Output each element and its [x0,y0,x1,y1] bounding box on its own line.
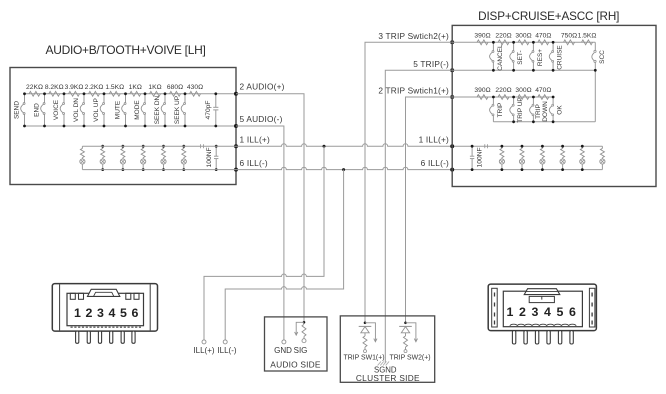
svg-text:4: 4 [109,306,116,320]
svg-text:1: 1 [74,306,81,320]
connector J2 (6-pin, cluster side) body [488,284,596,331]
switch OK [549,96,563,124]
illumination lamp RH L5 with resistor [580,145,585,171]
svg-text:SEND: SEND [14,101,21,119]
switch SEEK DN [154,92,166,127]
svg-text:6: 6 [569,305,576,319]
svg-text:3 TRIP Swtich2(+): 3 TRIP Swtich2(+) [378,31,449,41]
svg-text:AUDIO SIDE: AUDIO SIDE [270,360,321,370]
svg-text:1KΩ: 1KΩ [129,84,142,91]
svg-text:SCC: SCC [599,50,606,64]
svg-text:5 TRIP(-): 5 TRIP(-) [413,59,449,69]
switch SET- [510,41,524,72]
switch CRUISE [549,41,563,72]
svg-text:390Ω: 390Ω [474,32,490,39]
illumination lamp RH L2 with resistor [519,145,524,171]
svg-text:470Ω: 470Ω [535,87,551,94]
wire: LH ladder top rail (AUDIO+) [25,93,237,95]
resistor R 300ohm row2 [515,87,531,99]
svg-text:1: 1 [507,305,514,319]
svg-text:5 AUDIO(-): 5 AUDIO(-) [240,114,283,124]
svg-text:2: 2 [86,306,93,320]
svg-text:3: 3 [97,306,104,320]
svg-text:4: 4 [544,305,551,319]
switch END [34,92,46,127]
resistor R 1.5K [578,32,597,44]
svg-text:CRUISE: CRUISE [557,45,564,70]
switch VOL UP [93,92,105,127]
svg-text:OK: OK [557,105,564,115]
resistor R 22K (22Kohm) [26,84,43,96]
wire: RH row1 bottom rail (TRIP-) [452,69,595,71]
connector J1 pin numbers 1-6 [74,306,139,320]
svg-text:TRIP UP: TRIP UP [517,97,524,123]
svg-text:3: 3 [532,305,539,319]
svg-text:680Ω: 680Ω [167,84,183,91]
capacitor C 100NF (LH) [201,144,219,171]
wire: RH row2 bottom rail [493,121,595,123]
illumination lamp LH L1 with resistor [80,146,85,169]
svg-text:TRIP SW1(+): TRIP SW1(+) [343,354,384,361]
svg-text:390Ω: 390Ω [474,87,490,94]
diode D1 + resistor (TRIP SW1 input) [359,322,377,353]
svg-text:2.2KΩ: 2.2KΩ [85,84,104,91]
svg-text:GND: GND [274,346,292,355]
resistor R 1.5K (1.5Kohm) [105,84,124,96]
block outline: audio switch module [LH] [10,68,236,185]
illumination lamp LH L3 with resistor [120,145,125,171]
svg-text:1KΩ: 1KΩ [148,84,161,91]
svg-text:1 ILL(+): 1 ILL(+) [419,135,449,145]
connector J1 pins [76,331,135,343]
svg-text:6: 6 [132,306,139,320]
svg-text:1.5KΩ: 1.5KΩ [578,32,597,39]
node 5 AUDIO(-) at LH box edge [234,114,283,128]
terminal ILL(+) [193,340,214,355]
title: DISP+CRUISE+ASCC [RH] [478,10,619,23]
illumination lamp LH L5 with resistor [161,145,166,171]
resistor R 1K b (1Kohm) [148,84,161,96]
wire 5 AUDIO(-) to GND [236,126,284,340]
svg-text:22KΩ: 22KΩ [26,84,43,91]
wire 2 TRIP Swtich1(+) to cluster [406,97,453,323]
illumination lamp RH L6 with resistor [600,146,605,169]
connector J2 pin numbers 1-6 [507,305,577,319]
svg-text:100NF: 100NF [206,147,213,167]
wire ILL(-) tap to terminal [225,170,343,340]
svg-text:2: 2 [519,305,526,319]
node 2 TRIP Swtich1(+) at RH box edge [378,85,454,99]
svg-text:1.5KΩ: 1.5KΩ [105,84,124,91]
terminal SIG [294,339,308,355]
svg-text:DOWN: DOWN [542,101,549,122]
svg-text:470pF: 470pF [205,101,212,120]
illumination lamp LH L4 with resistor [141,145,146,171]
node 1 ILL(+) at RH box edge [419,135,455,149]
switch VOICE [53,92,65,127]
svg-text:100NF: 100NF [477,147,484,167]
switch TRIP DOWN [530,96,549,124]
svg-text:6 ILL(-): 6 ILL(-) [421,158,449,168]
resistor R 2.2K (2.2Kohm) [85,84,104,96]
resistor R 300 row1 [515,32,531,44]
connector J1 (6-pin, audio side) body [52,284,157,332]
svg-text:5: 5 [557,305,564,319]
resistor on SIG line [302,321,306,339]
resistor R 1K a (1Kohm) [129,84,142,96]
wire 2 AUDIO(+) to SIG [236,94,304,322]
svg-text:6 ILL(-): 6 ILL(-) [240,158,268,168]
resistor R 430 (430ohm) [187,84,203,96]
block outline: audio side connector box [265,317,328,371]
svg-text:5: 5 [120,306,127,320]
svg-text:ILL(-): ILL(-) [217,346,236,355]
resistor R 220 row1 [495,32,511,44]
label AUDIO SIDE [270,360,321,370]
title: AUDIO+B/TOOTH+VOIVE [LH] [46,43,206,57]
svg-text:SET-: SET- [517,50,524,64]
svg-text:430Ω: 430Ω [187,84,203,91]
resistor R 220ohm row2 [495,87,511,99]
node 5 TRIP(-) at RH box edge [413,59,454,73]
block outline: cruise/disp switch module [RH] [452,25,656,186]
label TRIP SW1(+) [343,354,384,361]
wire ILL(-) rail across [82,167,602,171]
connector J2 pins [512,331,573,344]
switch SEND [14,92,26,127]
resistor R 390ohm row2 [474,87,490,99]
node 6 ILL(-) at RH box edge [421,158,455,172]
resistor R 3.9K (3.9Kohm) [65,84,84,96]
svg-text:MUTE: MUTE [115,100,122,119]
svg-text:SEEK DN: SEEK DN [154,95,161,124]
wire 5 TRIP(-) to SGND [385,70,452,362]
svg-text:220Ω: 220Ω [495,32,511,39]
switch MUTE [115,92,127,127]
svg-text:CLUSTER SIDE: CLUSTER SIDE [356,373,420,383]
node 6 ILL(-) at LH box edge [234,158,268,172]
switch VOL DN [73,92,85,127]
arrow: signal direction (audio side) [295,322,304,335]
resistor R 390 row1 [474,32,490,44]
node 1 ILL(+) at LH box edge [234,135,270,149]
capacitor C 100NF (RH) [470,144,488,171]
switch CANCEL [490,41,504,72]
wire: RH row1 top rail (TRIP Switch2+) [452,41,595,43]
switch TRIP UP [510,96,524,124]
illumination lamp RH L3 with resistor [540,145,545,171]
resistor R 8.2K (8.2Kohm) [45,84,64,96]
svg-text:1 ILL(+): 1 ILL(+) [240,135,270,145]
svg-text:TRIP: TRIP [497,103,504,118]
wire 3 TRIP Swtich2(+) to cluster [365,42,452,323]
resistor R 750 [561,32,577,44]
illumination lamp RH L4 with resistor [560,145,565,171]
block outline: cluster side connector box [340,316,434,382]
illumination lamp RH L1 with resistor [499,145,504,171]
wire ILL(+) tap to terminal [204,146,324,340]
svg-text:470Ω: 470Ω [535,32,551,39]
svg-text:ILL(+): ILL(+) [193,346,214,355]
switch RES+ [530,41,544,72]
svg-text:CANCEL: CANCEL [497,44,504,71]
svg-text:750Ω: 750Ω [561,32,577,39]
label CLUSTER SIDE [356,373,420,383]
resistor R 470ohm row2 [535,87,551,99]
illumination lamp LH L6 with resistor [181,145,186,171]
svg-text:SEEK UP: SEEK UP [174,96,181,124]
terminal GND [274,340,292,355]
switch TRIP [490,96,504,122]
svg-text:END: END [34,103,41,117]
wire: RH row2 top rail (TRIP Switch1+) [452,96,553,98]
resistor R 470 row1 [535,32,551,44]
diode D2 + resistor (TRIP SW2 input) [399,322,417,353]
svg-text:8.2KΩ: 8.2KΩ [45,84,64,91]
svg-text:RES+: RES+ [537,49,544,66]
node 2 AUDIO(+) at LH box edge [234,82,285,96]
svg-text:300Ω: 300Ω [515,32,531,39]
terminal ILL(-) [217,340,236,355]
svg-text:AUDIO+B/TOOTH+VOIVE [LH]: AUDIO+B/TOOTH+VOIVE [LH] [46,43,206,57]
wire ILL(+) rail across [82,144,602,148]
svg-text:VOL UP: VOL UP [93,98,100,122]
svg-text:SIG: SIG [294,346,308,355]
svg-text:MODE: MODE [134,100,141,120]
capacitor C 470pF [205,92,218,127]
svg-text:300Ω: 300Ω [515,87,531,94]
illumination lamp LH L2 with resistor [100,145,105,171]
svg-text:TRIP SW2(+): TRIP SW2(+) [389,354,430,361]
node 3 TRIP Swtich2(+) at RH box edge [378,31,454,45]
resistor R 680 (680ohm) [167,84,183,96]
svg-text:2 TRIP Swtich1(+): 2 TRIP Swtich1(+) [378,85,449,95]
switch MODE [134,92,146,127]
svg-text:3.9KΩ: 3.9KΩ [65,84,84,91]
label TRIP SW2(+) [389,354,430,361]
svg-text:DISP+CRUISE+ASCC [RH]: DISP+CRUISE+ASCC [RH] [478,10,619,23]
svg-text:VOICE: VOICE [53,99,60,120]
switch SCC [592,42,606,122]
switch SEEK UP [174,92,186,127]
svg-text:220Ω: 220Ω [495,87,511,94]
svg-text:2 AUDIO(+): 2 AUDIO(+) [240,82,285,92]
ground SGND (chassis hatch) [374,361,397,374]
svg-text:VOL DN: VOL DN [73,98,80,122]
wire: LH ladder bottom rail (AUDIO-) [25,125,237,127]
